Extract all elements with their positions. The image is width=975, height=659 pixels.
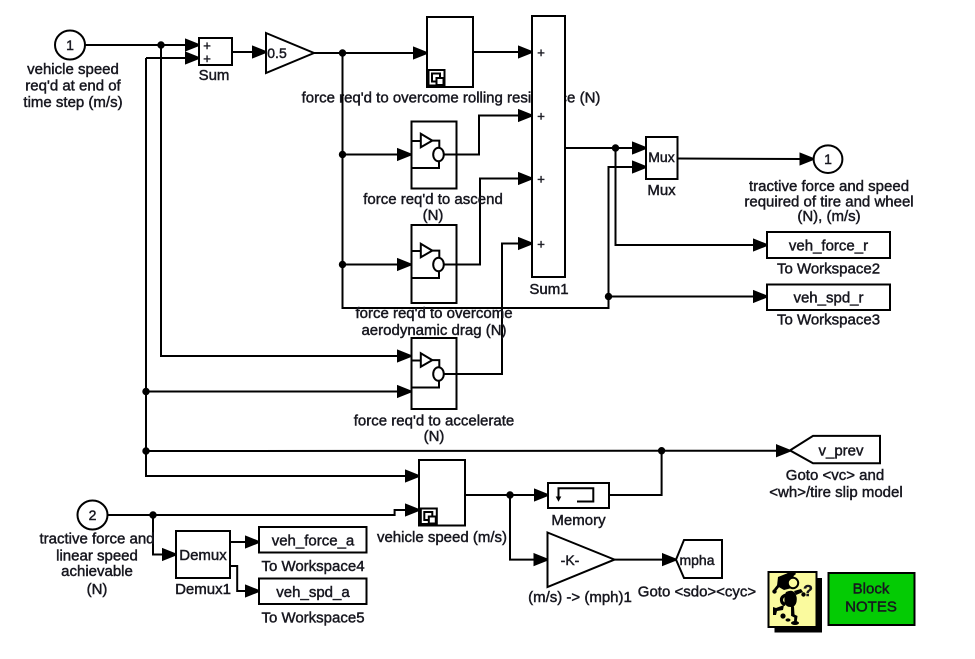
svg-text:(N), (m/s): (N), (m/s) [797,208,860,225]
gain 0.5 [266,33,314,73]
svg-text:achievable: achievable [61,563,133,580]
svg-text:(N): (N) [87,581,108,598]
To Workspace3 veh_spd_r [767,285,890,311]
face [788,578,798,588]
Mux block [646,137,678,179]
wire: rolling resistance out to Sum1 [473,51,520,53]
svg-text:vehicle speed (m/s): vehicle speed (m/s) [377,529,507,546]
subsystem: force req'd to accelerate [412,338,457,409]
outport 1 [814,145,843,173]
inport 2 [78,501,108,530]
svg-text:tractive force and speed: tractive force and speed [749,178,909,195]
svg-text:+: + [537,109,545,124]
svg-text:veh_force_r: veh_force_r [789,238,868,255]
wire: veh_force_r feed [616,148,756,245]
subsystem: force req'd to ascend [412,122,457,189]
wire: Sum1 out to Mux in1 [565,147,634,149]
subsystem: aerodynamic drag [412,225,457,303]
doc block shadow [775,578,823,633]
Demux block [176,531,230,578]
wire: Demux out1 to veh_force_a [230,541,247,543]
To Workspace4 veh_force_a [259,527,367,553]
svg-text:(N): (N) [424,428,445,445]
torso [784,591,796,607]
svg-text:req'd at end of: req'd at end of [25,78,121,95]
goto v_prev [790,436,880,463]
svg-text:Goto <vc> and: Goto <vc> and [786,467,884,484]
svg-text:NOTES: NOTES [845,599,897,616]
doc block yellow [769,572,817,627]
wire: aero out to Sum1 [457,179,521,265]
svg-text:force req'd to ascend: force req'd to ascend [363,191,503,208]
svg-text:To Workspace3: To Workspace3 [777,312,880,329]
inport 1 [55,31,85,60]
wire: branch down to Demux [153,515,164,555]
svg-text:+: + [203,51,211,66]
wire: veh_spd_r feed [609,296,756,298]
svg-text:Mux: Mux [647,182,676,199]
svg-text:To Workspace5: To Workspace5 [261,610,364,627]
svg-text:Sum: Sum [199,67,230,84]
subsystem: vehicle speed [419,460,465,526]
svg-text:linear speed: linear speed [56,548,138,565]
svg-text:+: + [537,237,545,252]
svg-text:Mux: Mux [648,149,674,165]
svg-text:+: + [537,172,545,187]
right arm to question mark [794,589,803,595]
wire: ascend in [343,154,400,156]
svg-text:(N): (N) [423,207,444,224]
svg-text:veh_force_a: veh_force_a [272,532,355,549]
wire: Demux out2 to veh_spd_a [230,566,247,591]
wire: x161 vertical to accelerate in1 [161,45,399,356]
wire: Sum out to gain [232,51,254,53]
svg-text:Sum1: Sum1 [529,281,568,298]
wire: Memory out up to v_prev wire [609,451,662,495]
svg-text:0.5: 0.5 [267,45,287,61]
svg-text:veh_spd_r: veh_spd_r [793,290,863,307]
TEXT LABELS UNDER WIRES LAYER drawn first [302,90,601,107]
wire: inport2 to vehicle speed in2 [108,510,408,515]
wire: v_prev long wire [146,450,778,452]
svg-text:+: + [537,45,545,60]
svg-text:1: 1 [824,151,832,167]
left arm akimbo [780,593,788,606]
svg-text:(m/s) -> (mph)1: (m/s) -> (mph)1 [528,589,632,606]
svg-text:tractive force and: tractive force and [39,531,154,548]
svg-text:1: 1 [66,37,74,53]
svg-text:2: 2 [89,507,97,523]
svg-text:-K-: -K- [561,552,580,568]
node: junction on inport1 wire [158,42,163,47]
svg-text:aerodynamic drag (N): aerodynamic drag (N) [361,322,506,339]
wire: memory-net vertical x146, Sum in2 [146,57,187,59]
subsystem: rolling resistance [427,17,473,87]
svg-text:<wh>/tire slip model: <wh>/tire slip model [769,484,902,501]
gain -K- [548,533,615,588]
wire: gain out to rolling resistance [314,52,415,54]
wire: vehicle speed out to Memory [465,494,536,496]
svg-text:To Workspace2: To Workspace2 [777,261,880,278]
wire: Mux out to outport1 [678,158,802,161]
svg-text:mpha: mpha [679,552,714,568]
To Workspace5 veh_spd_a [259,579,367,605]
svg-text:Block: Block [853,581,890,598]
wire: inport1 to Sum in1 [85,44,187,46]
svg-text:Memory: Memory [551,512,606,529]
svg-text:Goto <sdo><cyc>: Goto <sdo><cyc> [638,584,757,601]
right leg [791,606,798,622]
wire: accelerate in2 [146,391,399,393]
green Block NOTES [829,573,915,625]
Memory block [548,483,609,508]
svg-text:force req'd to overcome: force req'd to overcome [355,305,512,322]
hat mass [777,573,795,590]
svg-text:To Workspace4: To Workspace4 [261,558,364,575]
wire: avg-speed net vertical and route to Mux in2 [343,53,635,308]
wire: accelerate out to Sum1 [457,244,521,375]
wire: branch down to -K- gain [510,495,535,560]
Sum block [199,38,232,65]
svg-text:Demux1: Demux1 [175,581,231,598]
svg-text:Demux: Demux [179,547,227,564]
left leg kicked [773,605,784,615]
Sum1 tall block [532,16,565,277]
svg-text:veh_spd_a: veh_spd_a [276,584,350,601]
svg-text:force req'd to accelerate: force req'd to accelerate [354,413,514,430]
svg-text:vehicle speed: vehicle speed [27,61,119,78]
goto mpha [676,540,722,578]
svg-text:?: ? [803,583,813,600]
To Workspace2 veh_force_r [767,232,890,258]
wire: aero in [343,264,400,266]
wire: -K- out to mpha goto [615,559,665,561]
svg-text:v_prev: v_prev [818,443,864,460]
svg-text:time step (m/s): time step (m/s) [23,94,122,111]
wire: ascend out to Sum1 [457,116,521,155]
